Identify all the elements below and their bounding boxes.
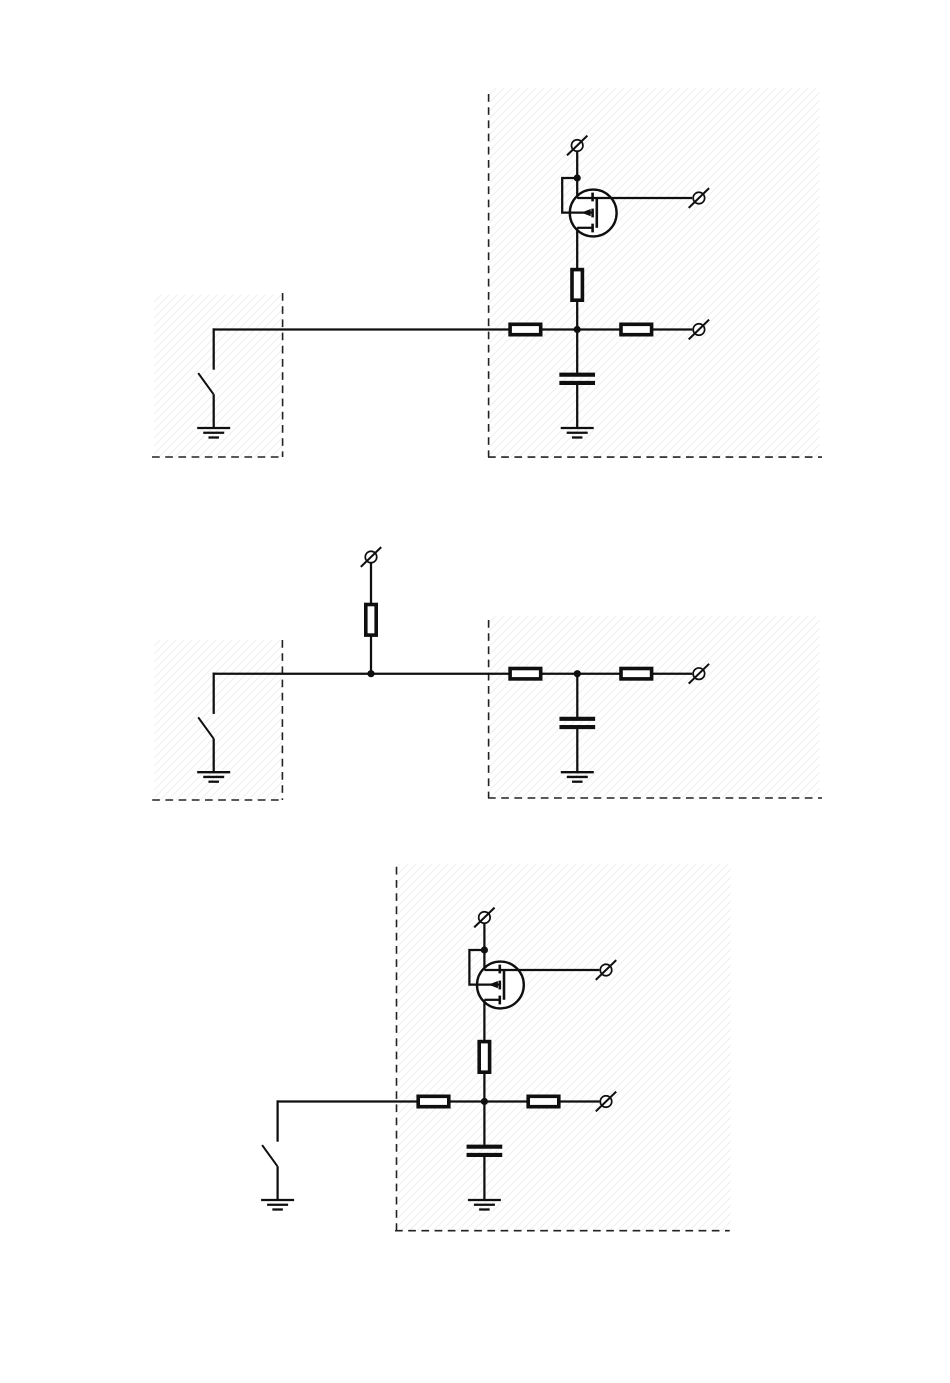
- wire: circuit 2 corner at switch S2: [213, 673, 215, 674]
- wire: P4 through R4 to net N2: [370, 563, 372, 673]
- resistor R7 (vertical): [479, 1042, 489, 1073]
- port P6 (supply terminal): [474, 908, 494, 928]
- node N2 junction dot: [574, 670, 581, 677]
- hatched room: circuit 1 amplifier block: [489, 88, 820, 457]
- wire: S2 bottom lead: [213, 738, 215, 773]
- dashed border: circuit 3 amplifier block: [395, 867, 730, 1231]
- wire: Q1 source down through R1 to output net: [576, 228, 578, 330]
- wire: circuit 3 corner at switch S3: [276, 1100, 278, 1101]
- transistor Q1 bulk arrow (points left): [581, 209, 591, 216]
- wire: drain node into Q2: [483, 950, 485, 970]
- wire: Q2 drain stub / gate lead to P7: [484, 969, 599, 971]
- wire: node N2 down to C2: [576, 674, 578, 717]
- node N1 junction dot: [574, 326, 581, 333]
- transistor Q1 body circle: [570, 190, 617, 237]
- wire: main horizontal net N3: [278, 1100, 600, 1102]
- ground (below S2): [197, 772, 230, 782]
- ground (below S3): [261, 1200, 294, 1210]
- transistor Q2 gate bar: [503, 970, 506, 1000]
- wire: Q1 gate-drain tie loop and bulk lead: [562, 178, 592, 213]
- capacitor C1: [559, 375, 595, 383]
- switch S1 (open blade): [198, 373, 213, 394]
- wire: drain node into Q1: [576, 178, 578, 198]
- wire: node N1 down to C1: [576, 330, 578, 373]
- transistor Q2 channel bar (3 segments): [498, 965, 501, 1005]
- wire: S3 bottom lead: [276, 1166, 278, 1201]
- port P3 (output terminal): [689, 320, 709, 340]
- port P8 (output terminal): [596, 1092, 616, 1112]
- switch S2 (open blade): [198, 717, 213, 738]
- wire: Q1 drain stub / gate lead to P2: [577, 197, 692, 199]
- ground (below C3): [468, 1200, 501, 1210]
- node N3 junction dot: [481, 1098, 488, 1105]
- node: R4 junction dot on N2: [367, 670, 374, 677]
- hatched room: circuit 3 amplifier block: [397, 864, 732, 1230]
- wire: S1 bottom lead: [213, 394, 215, 429]
- wire: main horizontal net N1: [214, 328, 693, 330]
- wire: C1 to ground: [576, 385, 578, 429]
- hatched room: circuit 2 filter block: [489, 617, 820, 799]
- transistor Q1 gate bar: [595, 198, 598, 228]
- hatched room: circuit 2 switch block: [155, 640, 283, 800]
- transistor Q1 channel bar (3 segments): [591, 193, 594, 233]
- wire: main horizontal net N2: [214, 673, 693, 675]
- hatched room: circuit 1 switch block: [154, 295, 283, 457]
- port P2 (gate terminal): [689, 188, 709, 208]
- transistor Q2 bulk arrow (points left): [488, 981, 498, 988]
- port P5 (output terminal): [689, 664, 709, 684]
- switch S3 (open blade): [262, 1145, 277, 1166]
- wire: circuit 1 corner at switch S1: [213, 328, 215, 329]
- wire: Q2 source down through R7 to output net: [483, 1000, 485, 1102]
- resistor R3 (series, right): [621, 324, 652, 334]
- wire: S3 top lead: [276, 1100, 278, 1141]
- capacitor C2: [559, 719, 595, 727]
- dashed border: circuit 1 amplifier block: [488, 94, 822, 457]
- resistor R9 (series, right): [528, 1096, 559, 1106]
- ground (below C2): [561, 772, 594, 782]
- dashed border: circuit 2 filter block: [488, 620, 822, 798]
- port P7 (gate terminal): [596, 960, 616, 980]
- wire: C2 to ground: [576, 729, 578, 773]
- port P4 (pull-up supply terminal): [361, 547, 381, 567]
- port P1 (supply terminal): [567, 136, 587, 156]
- ground (below C1): [561, 428, 594, 438]
- transistor Q1 source stub: [577, 227, 592, 229]
- dashed border: circuit 2 switch block: [152, 640, 283, 800]
- node: Q2 drain junction dot: [481, 946, 488, 953]
- transistor Q2 source stub: [484, 999, 499, 1001]
- resistor R6 (series, right): [621, 669, 652, 679]
- wire: S1 top lead: [213, 328, 215, 369]
- dashed border: circuit 1 switch block: [152, 293, 283, 457]
- capacitor C3: [467, 1147, 503, 1155]
- wire: S2 top lead: [213, 673, 215, 714]
- node: Q1 drain junction dot: [574, 174, 581, 181]
- resistor R8 (series, left): [418, 1096, 449, 1106]
- wire: node N3 down to C3: [483, 1102, 485, 1145]
- wire: Q2 gate-drain tie loop and bulk lead: [469, 950, 499, 985]
- wire: C3 to ground: [483, 1157, 485, 1201]
- resistor R4 (pull-up, vertical): [366, 605, 376, 636]
- resistor R5 (series, left): [510, 669, 541, 679]
- resistor R2 (series, left): [510, 324, 541, 334]
- ground (below S1): [197, 428, 230, 438]
- resistor R1 (vertical): [572, 270, 582, 301]
- transistor Q2 body circle: [477, 962, 524, 1009]
- wire: P6 down to drain node: [483, 924, 485, 950]
- wire: P1 down to drain node: [576, 152, 578, 178]
